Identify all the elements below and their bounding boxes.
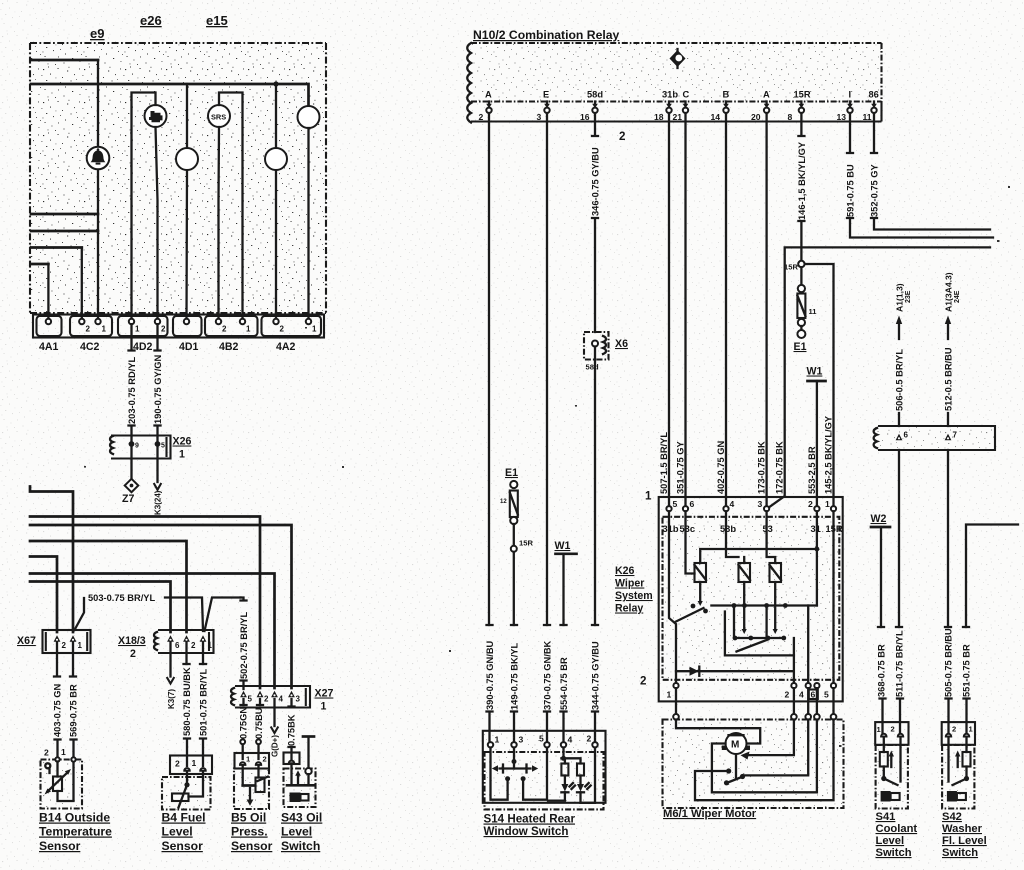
svg-text:1: 1 xyxy=(61,747,66,757)
lamp SRS xyxy=(208,105,230,127)
svg-text:1: 1 xyxy=(495,735,500,745)
wire M6/1 terminal1 to motor xyxy=(676,720,760,744)
wire 501-0.75 BR/YL xyxy=(202,642,204,766)
svg-text:507-1.5 BR/YL: 507-1.5 BR/YL xyxy=(659,432,669,494)
wire K26 pin6 to coil1 xyxy=(686,511,695,573)
svg-text:System: System xyxy=(615,590,653,602)
svg-text:506-0.5 BR/YL: 506-0.5 BR/YL xyxy=(894,349,904,411)
svg-text:2: 2 xyxy=(44,748,49,758)
svg-text:e9: e9 xyxy=(90,26,104,41)
svg-text:Relay: Relay xyxy=(615,603,643,615)
svg-text:Sensor: Sensor xyxy=(162,839,204,853)
svg-text:e15: e15 xyxy=(206,13,228,28)
svg-text:S42: S42 xyxy=(942,811,962,823)
svg-text:2: 2 xyxy=(161,325,166,334)
pin K26-5 xyxy=(666,506,671,511)
pin X18/3-2 xyxy=(183,635,190,642)
svg-text:31b: 31b xyxy=(663,524,679,534)
wire 402-0.75 GN N10-14 to K26-4 xyxy=(725,113,727,506)
sensor B5 oil pressure sensor xyxy=(234,753,269,809)
lamp 4D1 xyxy=(176,148,198,170)
wire 390-0.75 GN/BU N10-2 to S14-1 xyxy=(488,113,491,742)
svg-text:7: 7 xyxy=(953,431,958,440)
wire left entry to 4C2 pin2 xyxy=(31,246,82,249)
wire 506-0.5 BR/YL to A1(1,3) xyxy=(898,323,900,426)
toggle switch S14 xyxy=(492,765,538,773)
pin N10 58d/16 xyxy=(580,90,603,123)
svg-text:2: 2 xyxy=(263,755,267,764)
svg-text:2: 2 xyxy=(808,499,813,509)
svg-text:E1: E1 xyxy=(505,467,518,479)
pin K26 bottom 5 xyxy=(831,683,836,688)
svg-text:351-0.75 GY: 351-0.75 GY xyxy=(676,440,686,494)
svg-text:145-2,5 BK/YL/GY: 145-2,5 BK/YL/GY xyxy=(824,415,834,494)
svg-text:K26: K26 xyxy=(615,565,635,577)
wire K26 pin3 to coil3 xyxy=(767,511,776,563)
svg-text:4D1: 4D1 xyxy=(179,341,199,353)
connector X27 xyxy=(231,686,310,708)
lower contacts xyxy=(735,637,784,639)
lamp 4A2-2 xyxy=(265,148,287,170)
switch S42 washer fluid level switch xyxy=(942,722,975,808)
svg-text:Level: Level xyxy=(876,835,905,847)
svg-text:B14 Outside: B14 Outside xyxy=(39,811,110,825)
pin X18/3-6 xyxy=(167,635,174,642)
pin N10 31b/18 xyxy=(654,90,678,123)
svg-text:S43 Oil: S43 Oil xyxy=(281,811,322,825)
wire S14 pin3 to toggle xyxy=(513,748,515,769)
svg-text:3: 3 xyxy=(537,112,542,122)
wire 553-2,5 BR W1 to K26-2 xyxy=(816,381,818,506)
pin X67-1 xyxy=(70,635,77,642)
svg-text:1: 1 xyxy=(825,499,830,509)
pin N10 E/3 xyxy=(537,90,550,123)
connector X6 xyxy=(584,332,609,360)
svg-text:Coolant: Coolant xyxy=(876,823,918,835)
wire S14 pin4 to resistors xyxy=(562,748,564,759)
wire 580-0.75 BU/BK xyxy=(185,642,188,766)
svg-text:1: 1 xyxy=(192,758,197,768)
svg-text:551-0.75 BR: 551-0.75 BR xyxy=(961,644,971,697)
pin N10 C/21 xyxy=(673,90,690,123)
svg-text:5: 5 xyxy=(824,690,829,700)
pin X18/3-1 xyxy=(200,635,207,642)
coil actuator links xyxy=(699,582,701,601)
wire K26 lower switch frame xyxy=(725,612,794,656)
svg-text:2: 2 xyxy=(280,325,285,334)
connector strip right xyxy=(874,426,995,450)
svg-text:18: 18 xyxy=(654,112,664,122)
svg-text:Switch: Switch xyxy=(942,847,978,859)
pin N10 15R/8 xyxy=(788,90,811,123)
svg-text:8: 8 xyxy=(788,112,793,122)
svg-text:A1(3A4.3): A1(3A4.3) xyxy=(944,272,954,312)
svg-text:0.75BU: 0.75BU xyxy=(254,707,264,739)
svg-text:Level: Level xyxy=(162,825,193,839)
svg-text:A1(1,3): A1(1,3) xyxy=(895,283,905,312)
wire bus L2 to X27 pin2 xyxy=(30,517,260,689)
wire 172-0.75 BK line to K26-3 xyxy=(767,247,990,509)
svg-text:203-0.75 RD/YL: 203-0.75 RD/YL xyxy=(127,357,137,424)
svg-text:5: 5 xyxy=(161,443,165,450)
svg-text:4A1: 4A1 xyxy=(39,341,59,353)
svg-text:Washer: Washer xyxy=(942,823,983,835)
pin N10 I/13 xyxy=(837,90,853,123)
svg-text:Sensor: Sensor xyxy=(39,839,81,853)
wire 344-0.75 GY/BU X6 to S14-2 xyxy=(594,360,596,743)
switch S43 oil level switch xyxy=(284,737,316,808)
wire bell column xyxy=(97,60,99,322)
LED S14 D2 xyxy=(577,748,595,803)
svg-text:0.75BK: 0.75BK xyxy=(287,714,297,746)
svg-text:4: 4 xyxy=(799,690,804,700)
svg-text:1: 1 xyxy=(102,325,107,334)
svg-text:501-0.75 BR/YL: 501-0.75 BR/YL xyxy=(198,669,208,736)
svg-text:4B2: 4B2 xyxy=(219,341,239,353)
svg-text:2: 2 xyxy=(952,725,956,734)
wire end ticks at inline labels xyxy=(54,598,970,748)
svg-text:370-0.75 GN/BK: 370-0.75 GN/BK xyxy=(542,640,552,710)
wire 146-1,5 BK/YL/GY N10-8 to E1 xyxy=(798,113,804,261)
wire lamp 4D1 column xyxy=(185,84,188,322)
svg-text:W2: W2 xyxy=(871,513,887,525)
svg-text:B5 Oil: B5 Oil xyxy=(231,811,266,825)
wire X26 pin5 to K3(24) arrow xyxy=(156,447,158,483)
wire 551-0.75 BR from right edge to S42-1 xyxy=(966,525,1018,734)
wire bus y84 across cluster xyxy=(31,84,309,106)
svg-text:2: 2 xyxy=(587,734,592,744)
pin K26 bottom 6 xyxy=(814,683,819,688)
wire 352-0.75 GY N10-11 to right xyxy=(871,113,990,230)
pin 4A1-1 xyxy=(46,319,51,324)
svg-text:C: C xyxy=(683,90,690,100)
junction dot on bus xyxy=(273,81,278,86)
svg-text:2: 2 xyxy=(264,695,269,704)
switch S41 coolant level switch xyxy=(875,722,908,808)
svg-text:173-0.75 BK: 173-0.75 BK xyxy=(757,441,767,494)
svg-text:6: 6 xyxy=(904,431,909,440)
svg-text:4: 4 xyxy=(279,695,284,704)
wire 503-0.75 BR/YL xyxy=(75,598,85,630)
switch blade 2 xyxy=(737,640,769,652)
svg-text:Fl. Level: Fl. Level xyxy=(942,835,987,847)
svg-text:K3(24): K3(24) xyxy=(154,490,163,515)
svg-text:9: 9 xyxy=(135,443,139,450)
wire bus L7 to X18/3 pin6 xyxy=(30,582,171,633)
pin strip-7 xyxy=(945,434,952,441)
svg-text:X6: X6 xyxy=(615,338,628,350)
svg-text:3: 3 xyxy=(296,695,301,704)
wire bus L3 to X27 pin3 xyxy=(30,525,292,688)
pin 4C2-1 xyxy=(95,319,100,324)
wire 507-1.5 BR/YL N10-18 to K26-5 xyxy=(668,113,670,506)
wire 149-0.75 BK/YL E1 to S14-3 xyxy=(513,552,516,742)
svg-text:4D2: 4D2 xyxy=(133,341,153,353)
wire K26 pin5 internal xyxy=(669,511,676,683)
pin X27-3 xyxy=(288,691,295,698)
svg-text:M6/1 Wiper Motor: M6/1 Wiper Motor xyxy=(663,808,757,820)
wire SRS loop to 4B2 xyxy=(219,93,243,322)
pin 4A2-2 xyxy=(273,319,278,324)
wire 554-0.75 BR W1 to S14-4 xyxy=(562,554,564,742)
pin K26-6 xyxy=(683,506,688,511)
wire K26 pin1 15R down to bottom pin5 xyxy=(832,511,834,683)
svg-text:344-0.75 GY/BU: 344-0.75 GY/BU xyxy=(590,641,600,710)
svg-text:e26: e26 xyxy=(140,13,162,28)
svg-text:15R: 15R xyxy=(519,539,533,548)
svg-text:2: 2 xyxy=(891,725,895,734)
wire K26 mid bus xyxy=(711,604,817,606)
svg-text:53c: 53c xyxy=(680,524,696,534)
lamp check engine xyxy=(145,105,167,127)
svg-text:X18/3: X18/3 xyxy=(118,635,146,647)
svg-text:2: 2 xyxy=(86,325,91,334)
svg-text:2: 2 xyxy=(640,675,646,688)
lamp 4A2-1 xyxy=(298,106,320,128)
svg-text:12: 12 xyxy=(500,499,507,505)
svg-text:502-0.75 BR/YL: 502-0.75 BR/YL xyxy=(239,612,249,679)
svg-text:86: 86 xyxy=(869,90,879,100)
actuator link M6/1 xyxy=(735,755,737,780)
svg-text:5: 5 xyxy=(539,734,544,744)
svg-text:1: 1 xyxy=(208,641,213,650)
pin X26-9 xyxy=(129,441,135,447)
wires K26 to M6/1 terminals xyxy=(676,688,834,714)
svg-text:I: I xyxy=(849,90,852,100)
svg-text:W1: W1 xyxy=(807,366,823,378)
relay K26 wiper system relay box xyxy=(659,497,843,701)
svg-text:0.75GN: 0.75GN xyxy=(238,707,248,739)
wire 203-0.75 RD/YL xyxy=(129,324,135,441)
svg-text:3: 3 xyxy=(758,499,763,509)
svg-text:53b: 53b xyxy=(720,524,736,534)
connector 4D2 xyxy=(118,316,168,336)
svg-text:2: 2 xyxy=(62,641,67,650)
wire bus L1 to X67 pin1 xyxy=(30,487,73,633)
wire 569-0.75 BR xyxy=(72,642,75,757)
svg-text:2: 2 xyxy=(222,325,227,334)
wire bottom pin4 drop xyxy=(807,606,809,684)
wire 173-0.75 BK N10-20 to K26-3 xyxy=(765,113,767,506)
wire G(D+) arrow X27-4 xyxy=(273,699,275,726)
svg-text:402-0.75 GN: 402-0.75 GN xyxy=(716,440,726,494)
svg-text:1: 1 xyxy=(312,325,317,334)
svg-text:X27: X27 xyxy=(315,688,334,700)
svg-text:1: 1 xyxy=(645,490,652,503)
wire terminal4 to contact xyxy=(744,720,808,776)
svg-text:1: 1 xyxy=(78,641,83,650)
pin K26 bottom 2 xyxy=(791,683,796,688)
wire bus L6 to X27 pin4 xyxy=(30,574,275,689)
pin S14-4 xyxy=(561,742,566,747)
pin N10 B/14 xyxy=(711,90,730,123)
pin 4C2-2 xyxy=(79,319,84,324)
svg-text:24E: 24E xyxy=(954,290,961,303)
svg-text:X26: X26 xyxy=(173,436,192,448)
svg-text:A: A xyxy=(763,90,770,100)
pin K26-1 xyxy=(831,506,836,511)
svg-text:2: 2 xyxy=(619,130,625,143)
terminal circles M6/1 xyxy=(673,714,679,720)
wire 502-0.75 BR/YL xyxy=(205,598,244,632)
svg-text:31: 31 xyxy=(811,524,821,534)
svg-text:S41: S41 xyxy=(876,811,896,823)
svg-text:580-0.75 BU/BK: 580-0.75 BU/BK xyxy=(182,667,192,736)
resistor S14 R2 xyxy=(577,764,584,776)
pin S14-5 xyxy=(544,742,549,747)
svg-text:172-0.75 BK: 172-0.75 BK xyxy=(775,441,785,494)
svg-text:14: 14 xyxy=(711,112,721,122)
svg-text:512-0.5 BR/BU: 512-0.5 BR/BU xyxy=(943,347,953,411)
svg-text:58d: 58d xyxy=(586,363,599,372)
svg-text:X67: X67 xyxy=(17,635,36,647)
connector X26 xyxy=(110,436,171,459)
wire 0.75GN X27-5 to B5 xyxy=(242,699,244,705)
svg-text:346-0.75 GY/BU: 346-0.75 GY/BU xyxy=(590,147,600,216)
connector 4C2 xyxy=(70,316,112,336)
pin X67-2 xyxy=(54,635,61,642)
wire 591-0.75 BU N10-13 to right xyxy=(847,113,993,238)
pin S14-2 xyxy=(592,742,597,747)
svg-text:23E: 23E xyxy=(905,290,912,303)
pin N10 A/2 xyxy=(479,90,493,123)
svg-text:20: 20 xyxy=(751,112,761,122)
svg-text:149-0.75 BK/YL: 149-0.75 BK/YL xyxy=(509,643,519,710)
node Z7 xyxy=(125,479,139,492)
lamp bell (seat belt) xyxy=(87,147,110,170)
pin S14-1 xyxy=(488,742,493,747)
svg-text:1: 1 xyxy=(321,701,327,713)
pin 4D2-1 xyxy=(129,319,134,324)
svg-text:G(D+): G(D+) xyxy=(271,735,280,757)
svg-text:Window Switch: Window Switch xyxy=(484,825,569,838)
svg-text:190-0.75 GY/GN: 190-0.75 GY/GN xyxy=(153,354,163,424)
svg-text:Switch: Switch xyxy=(876,847,912,859)
svg-text:S14 Heated Rear: S14 Heated Rear xyxy=(484,813,576,826)
svg-text:E1: E1 xyxy=(794,341,807,353)
wire 0.75BU X27-2 to B5 xyxy=(259,699,261,705)
wire X26 pin9 to Z7 xyxy=(130,447,132,479)
connector 4D1 xyxy=(173,316,202,336)
svg-text:2: 2 xyxy=(479,112,484,122)
svg-text:13: 13 xyxy=(837,112,847,122)
sensor B14 outside temperature sensor xyxy=(41,747,83,809)
motor M xyxy=(722,733,750,754)
wire left entries to bell column xyxy=(31,214,98,231)
wire lamp 4A2-2 column xyxy=(275,84,277,322)
relay N10/2 combination relay box xyxy=(467,43,881,123)
svg-text:Sensor: Sensor xyxy=(231,839,273,853)
svg-text:11: 11 xyxy=(863,112,872,122)
wire upper contact to terminal5 xyxy=(726,768,731,773)
lamp E1 right xyxy=(797,267,805,338)
wire coil1 top to 31 rail xyxy=(700,549,817,563)
connector 4A1 xyxy=(37,316,62,336)
svg-text:511-0.75 BR/YL: 511-0.75 BR/YL xyxy=(894,630,904,697)
svg-text:Switch: Switch xyxy=(281,839,320,853)
svg-text:1: 1 xyxy=(246,325,251,334)
pin K26-3 xyxy=(764,506,769,511)
svg-text:403-0.75 GN: 403-0.75 GN xyxy=(53,683,63,737)
connector X18/3 xyxy=(154,630,214,653)
svg-text:15R: 15R xyxy=(784,263,798,272)
pin S14-3 xyxy=(511,742,516,747)
wire 145-2,5 BK/YL/GY to K26-1 xyxy=(805,264,834,506)
svg-text:2: 2 xyxy=(191,641,196,650)
coil K26-1 xyxy=(695,563,707,582)
resistor S14 R1 xyxy=(561,764,568,776)
wire 368-0.75 BR W2 to S41-1 xyxy=(881,527,883,733)
svg-text:5: 5 xyxy=(673,499,678,509)
svg-text:SRS: SRS xyxy=(211,112,226,121)
svg-text:591-0.75 BU: 591-0.75 BU xyxy=(845,164,855,217)
coil K26-3 xyxy=(770,563,782,582)
svg-text:M: M xyxy=(731,740,739,751)
sensor B4 fuel level sensor xyxy=(162,756,212,810)
pin X26-5 xyxy=(155,441,161,447)
svg-text:A: A xyxy=(485,90,492,100)
svg-text:21: 21 xyxy=(673,112,683,122)
wire left entry to 4A1 pin xyxy=(31,263,48,266)
svg-text:N10/2 Combination Relay: N10/2 Combination Relay xyxy=(473,28,620,42)
wire 351-0.75 GY N10-21 to K26-6 xyxy=(684,113,686,506)
LED S14 D1 xyxy=(548,776,575,801)
svg-text:2: 2 xyxy=(130,648,136,660)
pin K26 bottom 1 xyxy=(673,683,678,688)
wire 190-0.75 GY/GN xyxy=(155,324,161,441)
svg-text:15R: 15R xyxy=(794,90,811,100)
wire S14 contact2 to pin5 xyxy=(521,776,526,781)
svg-text:3: 3 xyxy=(519,735,524,745)
svg-text:Wiper: Wiper xyxy=(615,578,644,590)
svg-text:E: E xyxy=(543,90,549,100)
instrument cluster box xyxy=(30,43,326,313)
svg-text:31b: 31b xyxy=(662,90,678,100)
svg-text:554-0.75 BR: 554-0.75 BR xyxy=(559,657,569,710)
connector 4A2 xyxy=(262,316,322,336)
svg-text:1: 1 xyxy=(667,690,672,700)
wire 512-0.5 BR/BU to A1(3A4.3) xyxy=(947,323,949,426)
wire 505-0.75 BR/BU strip7 to S42-2 xyxy=(947,450,950,733)
svg-text:569-0.75 BR: 569-0.75 BR xyxy=(69,684,79,737)
svg-text:368-0.75 BR: 368-0.75 BR xyxy=(876,644,886,697)
svg-text:4: 4 xyxy=(568,735,573,745)
svg-text:Z7: Z7 xyxy=(122,493,134,505)
pin N10 A/20 xyxy=(751,90,770,123)
svg-text:2: 2 xyxy=(175,759,180,769)
wire M6/1 terminal2 to brush xyxy=(745,720,794,756)
node 15R xyxy=(798,261,804,267)
wire bus L5 to X67 pin2 xyxy=(30,557,57,633)
svg-text:1: 1 xyxy=(135,325,140,334)
svg-text:11: 11 xyxy=(809,307,818,316)
pin N10 86/11 xyxy=(863,90,879,123)
wire lamp 4A2-1 column xyxy=(307,128,309,322)
wire K26 pin2 31 rail down xyxy=(816,511,818,605)
wire 370-0.75 GN/BK N10-3 to S14-5 xyxy=(546,113,548,742)
wire X18/3 pin6 to K3(7) arrow xyxy=(169,642,171,677)
connector X67 xyxy=(43,630,91,653)
pin 4B2-2 xyxy=(216,319,221,324)
svg-text:4C2: 4C2 xyxy=(80,341,100,353)
switch blade M6/1 xyxy=(726,776,744,783)
wire 0.75BK X27-3 to S43 xyxy=(290,699,292,706)
svg-text:390-0.75 GN/BU: 390-0.75 GN/BU xyxy=(485,640,495,710)
svg-text:16: 16 xyxy=(580,112,590,122)
svg-text:1: 1 xyxy=(179,449,185,461)
svg-text:5: 5 xyxy=(248,695,253,704)
pin X27-4 xyxy=(271,691,278,698)
